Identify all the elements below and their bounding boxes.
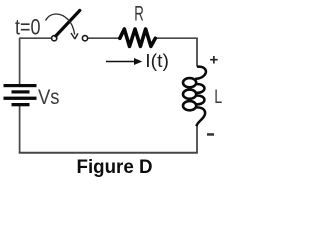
wire right lower vertical <box>196 126 198 153</box>
svg-text:I(t): I(t) <box>145 50 169 71</box>
wire left lower vertical <box>19 106 21 153</box>
label - polarity <box>207 133 214 136</box>
inductor hump 2 <box>196 95 204 104</box>
svg-text:+: + <box>210 51 219 68</box>
wire left vertical <box>19 38 21 84</box>
svg-text:t=0: t=0 <box>15 15 41 40</box>
svg-text:L: L <box>214 87 222 108</box>
switch arrowhead <box>71 33 78 39</box>
inductor L coil loop 3 <box>183 101 196 110</box>
inductor hump 1 <box>196 84 204 93</box>
svg-text:Vs: Vs <box>38 85 60 109</box>
wire bottom <box>19 152 198 154</box>
wire top from switch to resistor <box>88 37 120 39</box>
switch lever <box>56 10 80 36</box>
inductor L coil loop 1 <box>183 78 196 87</box>
inductor bottom tail <box>196 107 205 126</box>
wire top from resistor to right corner <box>155 37 197 39</box>
inductor top hook <box>195 67 206 79</box>
wire top-left segment <box>19 37 52 39</box>
switch closing arc <box>46 14 75 35</box>
battery Vs plates <box>4 84 37 87</box>
resistor R1 zigzag <box>120 29 156 46</box>
wire right upper vertical <box>196 37 198 66</box>
current arrow I(t) <box>106 61 136 63</box>
svg-text:Figure D: Figure D <box>77 156 153 178</box>
switch left contact <box>52 36 57 41</box>
switch right contact <box>82 36 87 41</box>
inductor L coil loop 2 <box>183 90 196 99</box>
svg-text:R: R <box>134 2 144 25</box>
